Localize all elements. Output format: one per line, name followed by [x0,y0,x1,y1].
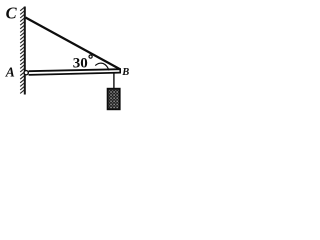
svg-text:A: A [5,65,15,80]
svg-text:30: 30 [73,56,88,72]
svg-text:C: C [6,4,18,23]
svg-text:B: B [121,67,129,78]
